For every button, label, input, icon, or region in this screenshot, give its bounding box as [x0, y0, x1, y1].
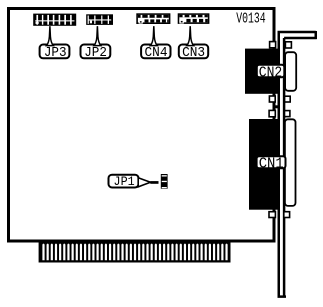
label CN2: [257, 65, 285, 82]
callout pointer CN3: [187, 26, 194, 45]
svg-text:JP3: JP3: [44, 45, 67, 61]
jumper block JP2 (2x4 pin header): [86, 14, 113, 25]
solder post between CN2 and CN1: [275, 105, 278, 108]
label CN4: [141, 45, 170, 62]
svg-text:CN4: CN4: [145, 45, 168, 61]
CN1 jack-screw tab top-left: [268, 110, 276, 118]
connector CN1 body (on-card connector block): [249, 119, 278, 210]
connector CN3 (2x5 pin header): [178, 13, 210, 24]
connector CN2 body (on-card connector block): [245, 49, 279, 94]
CN1 jack-screw tab bottom-right: [283, 211, 290, 218]
CN1 jack-screw tab top-right: [284, 110, 291, 118]
CN1 jack-screw tab bottom-left: [268, 211, 276, 218]
version text V0134: [236, 12, 265, 28]
svg-text:CN2: CN2: [259, 65, 283, 81]
svg-text:JP1: JP1: [114, 174, 135, 189]
label CN1: [257, 156, 286, 172]
label JP3: [40, 45, 70, 62]
svg-text:V0134: V0134: [236, 12, 265, 28]
CN2 jack-screw tab top-right: [285, 41, 293, 49]
svg-text:JP2: JP2: [84, 45, 107, 61]
CN2 jack-screw tab top-left: [269, 41, 277, 49]
CN2 jack-screw tab bottom-left: [269, 95, 276, 103]
callout pointer CN4: [150, 26, 157, 45]
connector CN4 (2x5 pin header): [136, 13, 170, 24]
connector CN2 D-sub face: [285, 52, 296, 91]
callout pointer JP2: [94, 26, 101, 45]
mounting bracket (rear metal bracket with top flange): [278, 31, 317, 297]
connector CN1 D-sub face: [285, 119, 296, 206]
label CN3: [179, 45, 208, 62]
svg-text:CN1: CN1: [259, 156, 284, 172]
CN2 jack-screw tab bottom-right: [284, 95, 291, 102]
jumper block JP1 (1x3 vertical header): [161, 174, 168, 189]
label JP1: [109, 174, 139, 189]
callout pointer JP1 (points right): [138, 178, 158, 187]
jumper block JP3 (2x7 pin header): [33, 14, 76, 26]
callout pointer JP3: [47, 26, 54, 45]
card outline (PCB): [9, 9, 275, 242]
svg-text:CN3: CN3: [182, 45, 205, 61]
label JP2: [81, 45, 111, 62]
edge connector (card-edge gold fingers): [39, 240, 231, 263]
